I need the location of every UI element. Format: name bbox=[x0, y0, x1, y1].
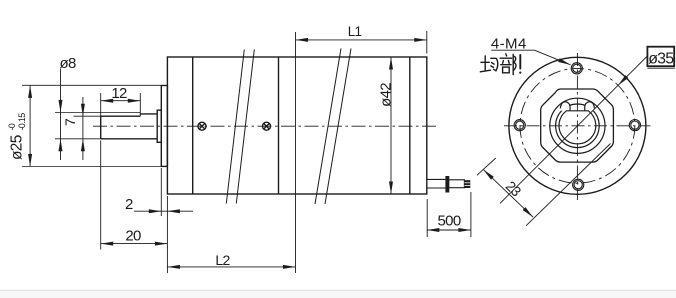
svg-text:ø35: ø35 bbox=[648, 51, 674, 68]
svg-text:500: 500 bbox=[438, 212, 461, 229]
svg-text:ø25: ø25 bbox=[9, 135, 26, 160]
svg-text:ø42: ø42 bbox=[378, 83, 395, 107]
svg-text:2: 2 bbox=[125, 196, 133, 213]
svg-text:L2: L2 bbox=[215, 252, 230, 268]
svg-text:7: 7 bbox=[62, 118, 78, 126]
svg-text:-0: -0 bbox=[7, 123, 17, 130]
svg-text:12: 12 bbox=[111, 85, 127, 102]
svg-text:-0.15: -0.15 bbox=[17, 113, 27, 131]
svg-text:20: 20 bbox=[125, 228, 141, 245]
svg-text:ø8: ø8 bbox=[60, 55, 76, 72]
svg-text:L1: L1 bbox=[348, 24, 362, 39]
